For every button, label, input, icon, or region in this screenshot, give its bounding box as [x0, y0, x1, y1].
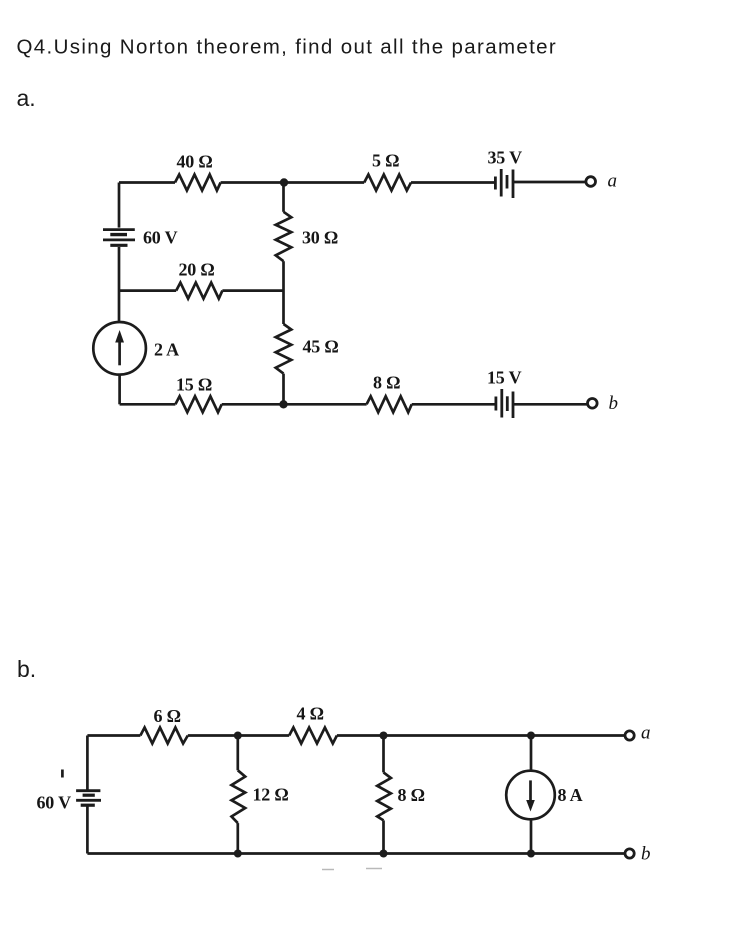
wire left vertical upper	[118, 183, 121, 228]
svg-text:8 Ω: 8 Ω	[398, 785, 425, 805]
wire 12 ohm bottom stub	[236, 823, 239, 853]
svg-text:b.: b.	[17, 656, 36, 682]
svg-text:45 Ω: 45 Ω	[303, 337, 339, 357]
resistor 45 ohm	[276, 324, 292, 374]
wire center vertical from node	[282, 183, 285, 212]
wire left vertical lower (circuit b)	[86, 805, 89, 853]
resistor 4 ohm	[289, 728, 337, 744]
svg-text:15 Ω: 15 Ω	[176, 375, 212, 395]
current source 2A circle	[93, 322, 146, 375]
wire top right	[337, 734, 625, 737]
battery 15V	[496, 389, 513, 418]
svg-text:4 Ω: 4 Ω	[297, 704, 324, 724]
svg-text:30 Ω: 30 Ω	[302, 228, 338, 248]
battery 60V	[103, 230, 135, 246]
svg-text:15 V: 15 V	[487, 368, 522, 388]
svg-text:Q4.Using Norton theorem, find: Q4.Using Norton theorem, find out all th…	[17, 36, 558, 59]
node bottom 8 ohm	[380, 850, 388, 858]
svg-text:60 V: 60 V	[143, 228, 178, 248]
resistor 8 ohm	[367, 396, 412, 412]
battery 35V	[495, 169, 513, 198]
wire 8 ohm top stub	[382, 736, 385, 773]
wire top between 6 and 4 ohm	[188, 734, 289, 737]
wire bottom middle	[222, 403, 367, 406]
faint scan smudge marks	[322, 869, 382, 870]
wire 8A source bottom stub	[530, 819, 533, 853]
svg-text:40 Ω: 40 Ω	[177, 152, 213, 172]
wire 8 ohm bottom stub	[382, 820, 385, 853]
svg-text:20 Ω: 20 Ω	[179, 260, 215, 280]
wire to battery 35V	[411, 181, 495, 184]
current mark I above 60V	[61, 770, 64, 778]
node top junction	[280, 178, 288, 186]
terminal b circle	[588, 399, 598, 409]
wire to terminal a	[513, 181, 586, 184]
wire top middle	[221, 181, 365, 184]
wire bottom horizontal (circuit b)	[87, 852, 625, 855]
resistor 40 ohm	[175, 175, 221, 191]
terminal a circle (circuit b)	[625, 731, 634, 740]
node top 12 ohm	[234, 732, 242, 740]
current source 8A arrow	[529, 780, 532, 802]
svg-text:8 Ω: 8 Ω	[373, 373, 400, 393]
current source 2A arrow	[118, 339, 121, 365]
wire middle row right	[222, 289, 283, 292]
wire top-left horizontal (circuit a)	[119, 181, 175, 184]
svg-text:6 Ω: 6 Ω	[154, 706, 181, 726]
resistor 8 ohm (circuit b)	[377, 772, 391, 820]
wire center vertical bottom	[282, 374, 285, 405]
wire 8A source top stub	[530, 736, 533, 771]
terminal a circle	[586, 177, 596, 187]
wire center vertical mid	[282, 261, 285, 324]
wire left vertical lower	[118, 375, 121, 405]
wire to battery 15V	[412, 403, 496, 406]
svg-text:2 A: 2 A	[154, 340, 179, 360]
wire middle row left	[119, 289, 176, 292]
wire top-left horizontal (circuit b)	[87, 734, 140, 737]
resistor 6 ohm	[140, 728, 187, 744]
resistor 30 ohm	[276, 212, 292, 261]
node bottom 12 ohm	[234, 850, 242, 858]
node bottom 8A source	[527, 850, 535, 858]
svg-text:b: b	[609, 393, 619, 414]
node top 8A source	[527, 732, 535, 740]
current source 8A circle	[506, 771, 555, 820]
node bottom junction	[279, 400, 287, 408]
wire bottom-left horizontal	[120, 403, 176, 406]
wire 12 ohm top stub	[236, 736, 239, 771]
svg-text:35 V: 35 V	[488, 148, 523, 168]
svg-text:5 Ω: 5 Ω	[372, 151, 399, 171]
svg-text:b: b	[641, 844, 651, 865]
node top 8 ohm	[380, 732, 388, 740]
svg-text:a: a	[608, 171, 618, 192]
wire left vertical upper (circuit b)	[86, 736, 89, 790]
resistor 15 ohm	[175, 396, 221, 412]
wire left vertical mid	[118, 247, 121, 322]
resistor 20 ohm	[176, 283, 222, 299]
terminal b circle (circuit b)	[625, 849, 634, 858]
resistor 12 ohm	[232, 770, 246, 823]
svg-text:12 Ω: 12 Ω	[253, 785, 289, 805]
svg-text:8 A: 8 A	[558, 785, 583, 805]
wire to terminal b	[513, 403, 588, 406]
svg-text:a: a	[641, 723, 651, 744]
svg-text:60 V: 60 V	[37, 793, 72, 813]
svg-text:a.: a.	[17, 85, 36, 111]
battery 60V (circuit b)	[76, 791, 101, 806]
resistor 5 ohm	[364, 175, 411, 191]
